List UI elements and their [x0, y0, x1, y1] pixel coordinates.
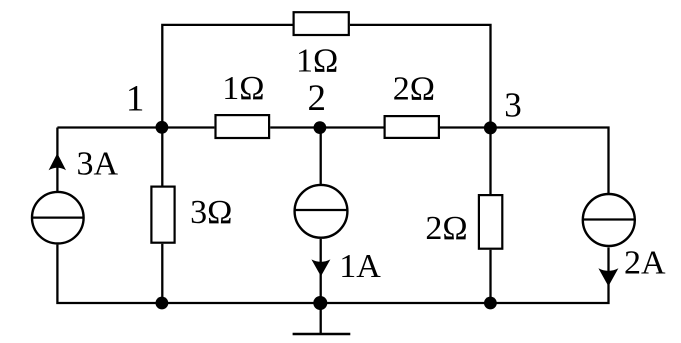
current source 1A (circle with bar): [295, 185, 348, 238]
svg-text:3Ω: 3Ω: [190, 194, 232, 231]
resistor 2Ω (node 3 branch): [479, 195, 502, 249]
junction dot bottom rail below node 3: [484, 297, 497, 310]
wire 1A source bottom to bottom rail: [320, 239, 322, 303]
wire resistor 2Ω right lead to node 3: [440, 126, 491, 128]
wire resistor 2Ω bottom to bottom rail: [489, 250, 491, 303]
resistor 1Ω (top): [294, 12, 349, 35]
wire middle rail: left corner to node 1: [57, 126, 162, 128]
resistor 3Ω (node 1 branch): [151, 187, 174, 243]
resistor 1Ω (between nodes 1 and 2): [216, 115, 270, 138]
wire node 3 to right rail corner and down to 2A source: [491, 128, 609, 194]
svg-text:1: 1: [126, 79, 145, 120]
wire left rail: corner down to 3A source top: [56, 128, 58, 192]
svg-text:2Ω: 2Ω: [425, 210, 467, 247]
wire 2A source bottom to bottom rail corner: [491, 248, 609, 304]
wire node 1 to resistor 1Ω left lead: [162, 126, 214, 128]
junction dot node 3: [484, 121, 497, 134]
svg-text:1Ω: 1Ω: [222, 70, 264, 107]
arrow 3A (upward): [49, 153, 66, 170]
wire top rail left lead (node1 column up and right to top resistor): [162, 25, 292, 129]
wire node 3 down to resistor 2Ω: [489, 128, 491, 195]
svg-text:3: 3: [504, 86, 522, 125]
wire 3A source bottom to bottom rail: [57, 245, 162, 303]
svg-text:1A: 1A: [339, 248, 381, 285]
svg-text:1Ω: 1Ω: [296, 43, 338, 80]
current source 3A (circle with bar): [32, 192, 84, 244]
arrow 1A (downward): [311, 259, 330, 276]
wire bottom rail (node1 to node2 to node3): [162, 302, 490, 304]
wire node 1 down to resistor 3Ω: [161, 128, 163, 186]
junction dot bottom rail below node 1: [156, 297, 169, 310]
svg-text:2: 2: [307, 78, 326, 119]
junction dot node 2: [314, 121, 327, 134]
wire node 2 down to 1A source: [320, 128, 322, 185]
svg-text:3A: 3A: [77, 145, 119, 182]
arrow 2A (downward): [598, 268, 618, 286]
junction dot node 1: [156, 121, 169, 134]
wire top rail right lead (top resistor right, down to node 3): [350, 25, 491, 129]
wire node 2 to resistor 2Ω left lead: [321, 126, 384, 128]
svg-text:2A: 2A: [624, 245, 666, 282]
wire resistor 1Ω right lead to node 2: [270, 126, 321, 128]
ground (reference at node 2 bottom): [293, 303, 351, 334]
current source 2A (circle with bar): [583, 194, 635, 246]
junction dot bottom rail below node 2 (ground node): [313, 296, 327, 310]
svg-text:2Ω: 2Ω: [393, 71, 435, 108]
wire resistor 3Ω bottom to bottom rail: [161, 244, 163, 303]
resistor 2Ω (between nodes 2 and 3): [385, 116, 439, 138]
